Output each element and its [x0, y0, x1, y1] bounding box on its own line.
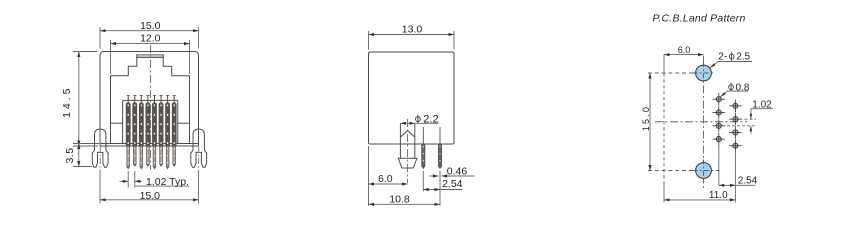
land: bottom hole centerline [648, 170, 720, 172]
svg-text:1.02 Typ.: 1.02 Typ. [146, 176, 189, 188]
svg-text:2-: 2- [718, 52, 727, 63]
front view: vertical centerline [150, 45, 152, 170]
front view: plug opening stepped profile [111, 57, 190, 123]
front dim 12.0 [110, 40, 112, 74]
svg-text:12.0: 12.0 [140, 33, 161, 45]
side view: pin hidden lines inside body [422, 127, 424, 144]
svg-text:2.54: 2.54 [442, 178, 463, 190]
svg-text:15.0: 15.0 [140, 190, 161, 202]
land: board edge dashed line [663, 55, 665, 73]
front dim 14.5 [73, 51, 97, 53]
front view: body bottom lines [100, 143, 199, 145]
front view: left board-lock tab [92, 129, 108, 167]
svg-text:6.0: 6.0 [678, 45, 691, 55]
land dim 6.0 [664, 54, 704, 56]
land label 2-phi2.5 [718, 61, 752, 63]
land: vertical centerline big holes [703, 56, 705, 191]
land: hole crosshairs [693, 72, 715, 74]
land: top hole centerline [648, 72, 716, 74]
svg-text:15.0: 15.0 [641, 105, 651, 131]
svg-text:6.0: 6.0 [378, 173, 393, 185]
side view: mounting post [399, 123, 401, 158]
side dim 10.8 [369, 203, 441, 205]
svg-text:13.0: 13.0 [402, 24, 423, 36]
side dim 2.54 [422, 171, 424, 192]
svg-text:2.54: 2.54 [738, 176, 758, 187]
side dim 6.0 [368, 146, 370, 206]
front view: 8 contact pins [126, 95, 177, 169]
side view: two pins [422, 144, 425, 166]
land: mounting hole top [696, 65, 712, 81]
svg-text:0.46: 0.46 [447, 165, 468, 177]
svg-text:15.0: 15.0 [140, 20, 161, 32]
svg-text:P.C.B.Land Pattern: P.C.B.Land Pattern [653, 13, 746, 25]
side dim 0.46 [430, 175, 439, 177]
land dim 11.0 [664, 199, 735, 201]
side view: body [369, 52, 455, 144]
land: mounting hole bottom [696, 163, 712, 179]
land dim 1.02 [740, 118, 757, 120]
land dim 15.0 [649, 73, 651, 171]
svg-text:2.5: 2.5 [736, 52, 750, 63]
front view: opening lower side walls [110, 123, 112, 143]
side dim 13.0 [368, 31, 370, 50]
land: horizontal mid centerline [655, 121, 747, 123]
front dim 1.02 Typ. [127, 171, 129, 188]
front view: contact comb box [111, 122, 123, 124]
svg-text:1.02: 1.02 [752, 100, 772, 111]
svg-text:3.5: 3.5 [64, 147, 76, 163]
front view: jack body outline [100, 52, 199, 147]
front dim 15.0 bottom [99, 171, 101, 204]
front dim 15.0 top [99, 27, 101, 49]
svg-text:0.8: 0.8 [736, 82, 750, 93]
front dim 3.5 [73, 143, 99, 145]
svg-text:11.0: 11.0 [709, 190, 728, 201]
side dim phi2.2 [400, 122, 438, 124]
svg-text:10.8: 10.8 [389, 194, 410, 206]
land dim 2.54 [718, 145, 720, 186]
svg-text:2.2: 2.2 [423, 113, 438, 125]
land label phi0.8 [727, 90, 748, 92]
svg-text:14.5: 14.5 [61, 85, 73, 117]
front view: latch slot bar [137, 55, 163, 57]
land: 8 pin holes [713, 93, 742, 152]
front view: right board-lock tab [191, 129, 207, 167]
side view: post centerline [407, 119, 409, 183]
